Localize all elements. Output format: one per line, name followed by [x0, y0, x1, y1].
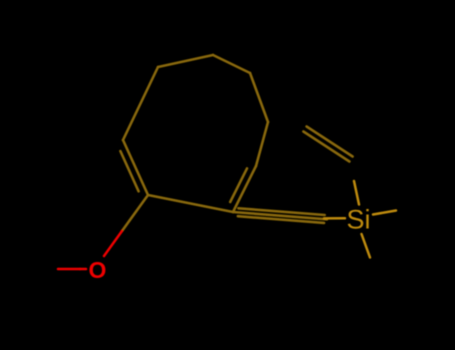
double bond inner line (A-B): [120, 151, 138, 191]
ring edge E-F: [250, 73, 268, 122]
exocyclic double bond line 2: [303, 132, 349, 162]
ring edge G-H: [233, 166, 256, 212]
ring edge C-D: [158, 55, 213, 67]
bond O to vinyl C: [104, 231, 122, 256]
ring edge B-C: [123, 67, 158, 140]
bond alkyne to Si: [324, 217, 345, 220]
exocyclic double bond line 1: [307, 127, 353, 157]
bond Si top methyl: [354, 181, 359, 205]
bond O-methyl: [80, 268, 86, 271]
ring edge D-E: [213, 55, 250, 73]
bond Si bottom methyl: [362, 234, 371, 258]
alkyne lower line: [238, 216, 324, 223]
ring edge H-A: [148, 195, 233, 212]
svg-text:Si: Si: [347, 205, 371, 235]
alkyne upper line: [238, 208, 324, 215]
bond O-methyl left part: [58, 268, 80, 271]
wire: enol ether C=CH bond (olive part): [122, 195, 148, 231]
ring edge F-G: [256, 122, 268, 166]
bond Si right methyl: [373, 211, 396, 215]
alkyne center line: [233, 212, 327, 219]
svg-text:O: O: [89, 257, 107, 283]
double bond inner line (G-H): [230, 168, 247, 202]
ring edge A-B: [123, 140, 148, 195]
